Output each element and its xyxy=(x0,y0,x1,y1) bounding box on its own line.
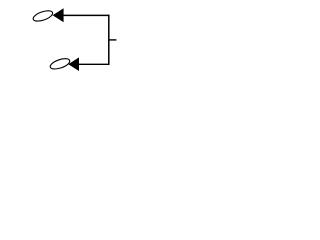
arrowhead A2 (bottom filled left-pointing triangle) xyxy=(68,57,79,71)
bubble E1 (top inverter bubble ellipse) xyxy=(32,9,54,23)
node tick (bus midpoint stub) xyxy=(109,39,117,41)
wire vertical bus xyxy=(108,15,110,65)
bubble E2 (bottom inverter bubble ellipse) xyxy=(49,57,71,71)
wire top horizontal xyxy=(63,14,110,16)
wire bottom horizontal xyxy=(78,63,110,65)
arrowhead A1 (top filled left-pointing triangle) xyxy=(53,8,64,22)
